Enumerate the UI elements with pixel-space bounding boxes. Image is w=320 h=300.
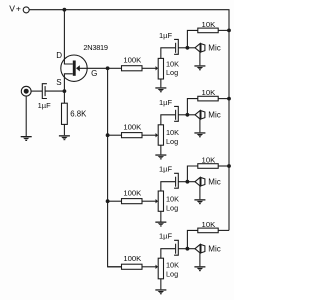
svg-text:Log: Log <box>166 68 178 77</box>
svg-text:V+: V+ <box>9 3 22 13</box>
svg-text:D: D <box>56 51 62 60</box>
potentiometer VR2 10K Log <box>156 115 180 155</box>
svg-text:100K: 100K <box>123 123 142 132</box>
wire riser to feed resistor 4 <box>187 230 197 248</box>
wire mic 3 drop <box>199 186 201 199</box>
svg-text:Mic: Mic <box>208 244 220 253</box>
resistor R1 6.8K <box>62 91 88 135</box>
wire V+ rail top and right <box>29 10 229 231</box>
capacitor C3 1uF <box>159 98 178 122</box>
ground VR3 <box>155 222 166 227</box>
capacitor C1 1uF <box>38 84 51 110</box>
wire jack drop <box>25 96 27 136</box>
svg-text:100K: 100K <box>123 189 142 198</box>
svg-text:Mic: Mic <box>208 177 220 186</box>
microphone MIC1 <box>187 44 220 53</box>
svg-text:2N3819: 2N3819 <box>83 43 108 52</box>
wire riser to feed resistor 3 <box>187 166 197 182</box>
resistor R4a 100K <box>108 254 156 269</box>
resistor R2b 10K <box>198 88 229 101</box>
wire C5 to mic node 4 <box>178 248 187 250</box>
wire gate bus <box>108 68 122 266</box>
wire C1 to source node <box>45 90 64 92</box>
node mic 4 <box>186 247 190 251</box>
node rail tap 1 <box>227 29 231 33</box>
potentiometer VR3 10K Log <box>156 182 180 222</box>
ground jack <box>21 136 32 141</box>
svg-text:10K: 10K <box>202 155 217 164</box>
svg-text:Mic: Mic <box>208 44 220 53</box>
svg-text:100K: 100K <box>123 56 142 65</box>
svg-text:10K: 10K <box>166 195 179 204</box>
node mic 2 <box>186 113 190 117</box>
node gate bus tap 2 <box>106 133 110 137</box>
ground VR2 <box>155 154 166 159</box>
wire mic 4 drop <box>199 253 201 266</box>
svg-text:1µF: 1µF <box>159 232 172 241</box>
transistor Q1 2N3819 <box>56 10 108 91</box>
resistor R1b 10K <box>198 20 229 33</box>
svg-text:Log: Log <box>166 203 178 212</box>
ground MIC2 <box>194 132 205 137</box>
resistor R3a 100K <box>108 189 156 204</box>
wire C2 to mic node 1 <box>178 47 187 49</box>
wire riser to feed resistor 2 <box>187 99 197 115</box>
resistor R1a 100K <box>108 56 156 71</box>
ground MIC4 <box>194 266 205 271</box>
ground VR1 <box>155 87 166 92</box>
wire mic 1 drop <box>199 52 201 65</box>
ground R1 <box>59 135 70 140</box>
svg-text:6.8K: 6.8K <box>70 109 87 118</box>
svg-text:1µF: 1µF <box>159 31 172 40</box>
resistor R4b 10K <box>198 220 229 233</box>
svg-text:S: S <box>56 78 61 87</box>
wire mic 2 drop <box>199 119 201 132</box>
svg-text:100K: 100K <box>123 254 142 263</box>
ground MIC3 <box>194 199 205 204</box>
node rail tap 3 <box>227 164 231 168</box>
svg-text:Mic: Mic <box>208 111 220 120</box>
potentiometer VR4 10K Log <box>156 249 180 290</box>
resistor R2a 100K <box>108 123 156 138</box>
terminal V+ <box>23 7 29 13</box>
ground VR4 <box>155 289 166 294</box>
svg-text:G: G <box>91 69 97 78</box>
potentiometer VR1 10K Log <box>156 48 180 88</box>
svg-text:1µF: 1µF <box>159 165 172 174</box>
capacitor C2 1uF <box>159 31 178 55</box>
node mic 1 <box>186 46 190 50</box>
connector J1 output jack <box>21 86 31 96</box>
microphone MIC4 <box>187 244 220 253</box>
svg-text:Log: Log <box>166 269 178 278</box>
node gate <box>106 66 110 70</box>
microphone MIC3 <box>187 177 220 186</box>
wire C3 to mic node 2 <box>178 114 187 116</box>
wire riser to feed resistor 1 <box>187 30 197 47</box>
ground MIC1 <box>194 65 205 70</box>
svg-text:10K: 10K <box>202 88 217 97</box>
capacitor C4 1uF <box>159 165 178 189</box>
capacitor C5 1uF <box>159 232 178 256</box>
node gate bus tap 3 <box>106 199 110 203</box>
node mic 3 <box>186 180 190 184</box>
svg-text:1µF: 1µF <box>38 101 51 110</box>
svg-text:10K: 10K <box>202 20 217 29</box>
wire C4 to mic node 3 <box>178 181 187 183</box>
node rail tap 2 <box>227 97 231 101</box>
svg-text:10K: 10K <box>202 220 217 229</box>
node drain tap <box>63 8 67 12</box>
microphone MIC2 <box>187 111 220 120</box>
svg-text:Log: Log <box>166 137 178 146</box>
node source <box>63 89 67 93</box>
svg-text:10K: 10K <box>166 128 179 137</box>
wire jack to C1 <box>31 90 42 92</box>
svg-text:10K: 10K <box>166 260 179 269</box>
resistor R3b 10K <box>198 155 229 168</box>
svg-text:1µF: 1µF <box>159 98 172 107</box>
